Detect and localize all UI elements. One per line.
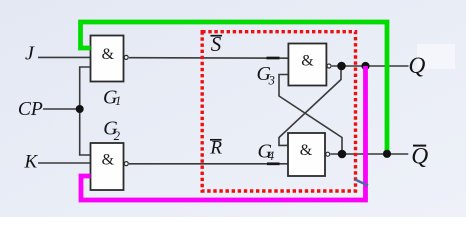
svg-text:Q: Q — [408, 53, 425, 79]
junction green to Q-bar line — [383, 150, 391, 158]
gate G1 — [91, 36, 129, 82]
svg-text:K: K — [24, 152, 39, 173]
wire Q output — [332, 65, 409, 67]
junction CP node — [76, 105, 84, 113]
green feedback wire Qbar to G1 — [81, 22, 388, 154]
svg-text:4: 4 — [268, 149, 274, 163]
magenta feedback wire Q to G2 — [81, 66, 366, 200]
junction Q node — [337, 62, 346, 71]
wire R-bar dark segment — [267, 162, 280, 165]
svg-text:&: & — [300, 142, 313, 159]
wire J input — [38, 56, 91, 58]
wire K input — [38, 162, 91, 164]
wire CP input — [43, 108, 80, 110]
svg-text:&: & — [102, 46, 115, 63]
svg-text:3: 3 — [268, 74, 275, 88]
gate G3 — [288, 44, 331, 86]
svg-text:CP: CP — [18, 99, 43, 120]
junction Q-bar node — [338, 150, 347, 159]
junction magenta to Q line — [361, 62, 369, 70]
gate G4 — [288, 133, 330, 176]
red dotted frame around SR latch — [202, 32, 355, 191]
wire cross-couple G3out to G4 input — [279, 66, 341, 145]
gate G2 — [91, 143, 129, 190]
svg-text:&: & — [301, 53, 314, 70]
wire S-bar dark segment — [267, 57, 280, 60]
wire R-bar net — [129, 163, 288, 165]
svg-text:&: & — [102, 152, 115, 169]
wire CP vertical — [80, 67, 91, 155]
svg-text:J: J — [25, 43, 35, 65]
svg-text:R: R — [209, 138, 222, 159]
wire cross-couple G4out to G3 input — [279, 75, 342, 155]
svg-text:2: 2 — [114, 129, 120, 143]
svg-text:Q: Q — [411, 143, 428, 169]
svg-text:1: 1 — [115, 94, 121, 108]
annotation slash on magenta wire — [355, 180, 368, 186]
wire Q-bar output — [330, 153, 408, 155]
wire S-bar net — [129, 57, 288, 60]
